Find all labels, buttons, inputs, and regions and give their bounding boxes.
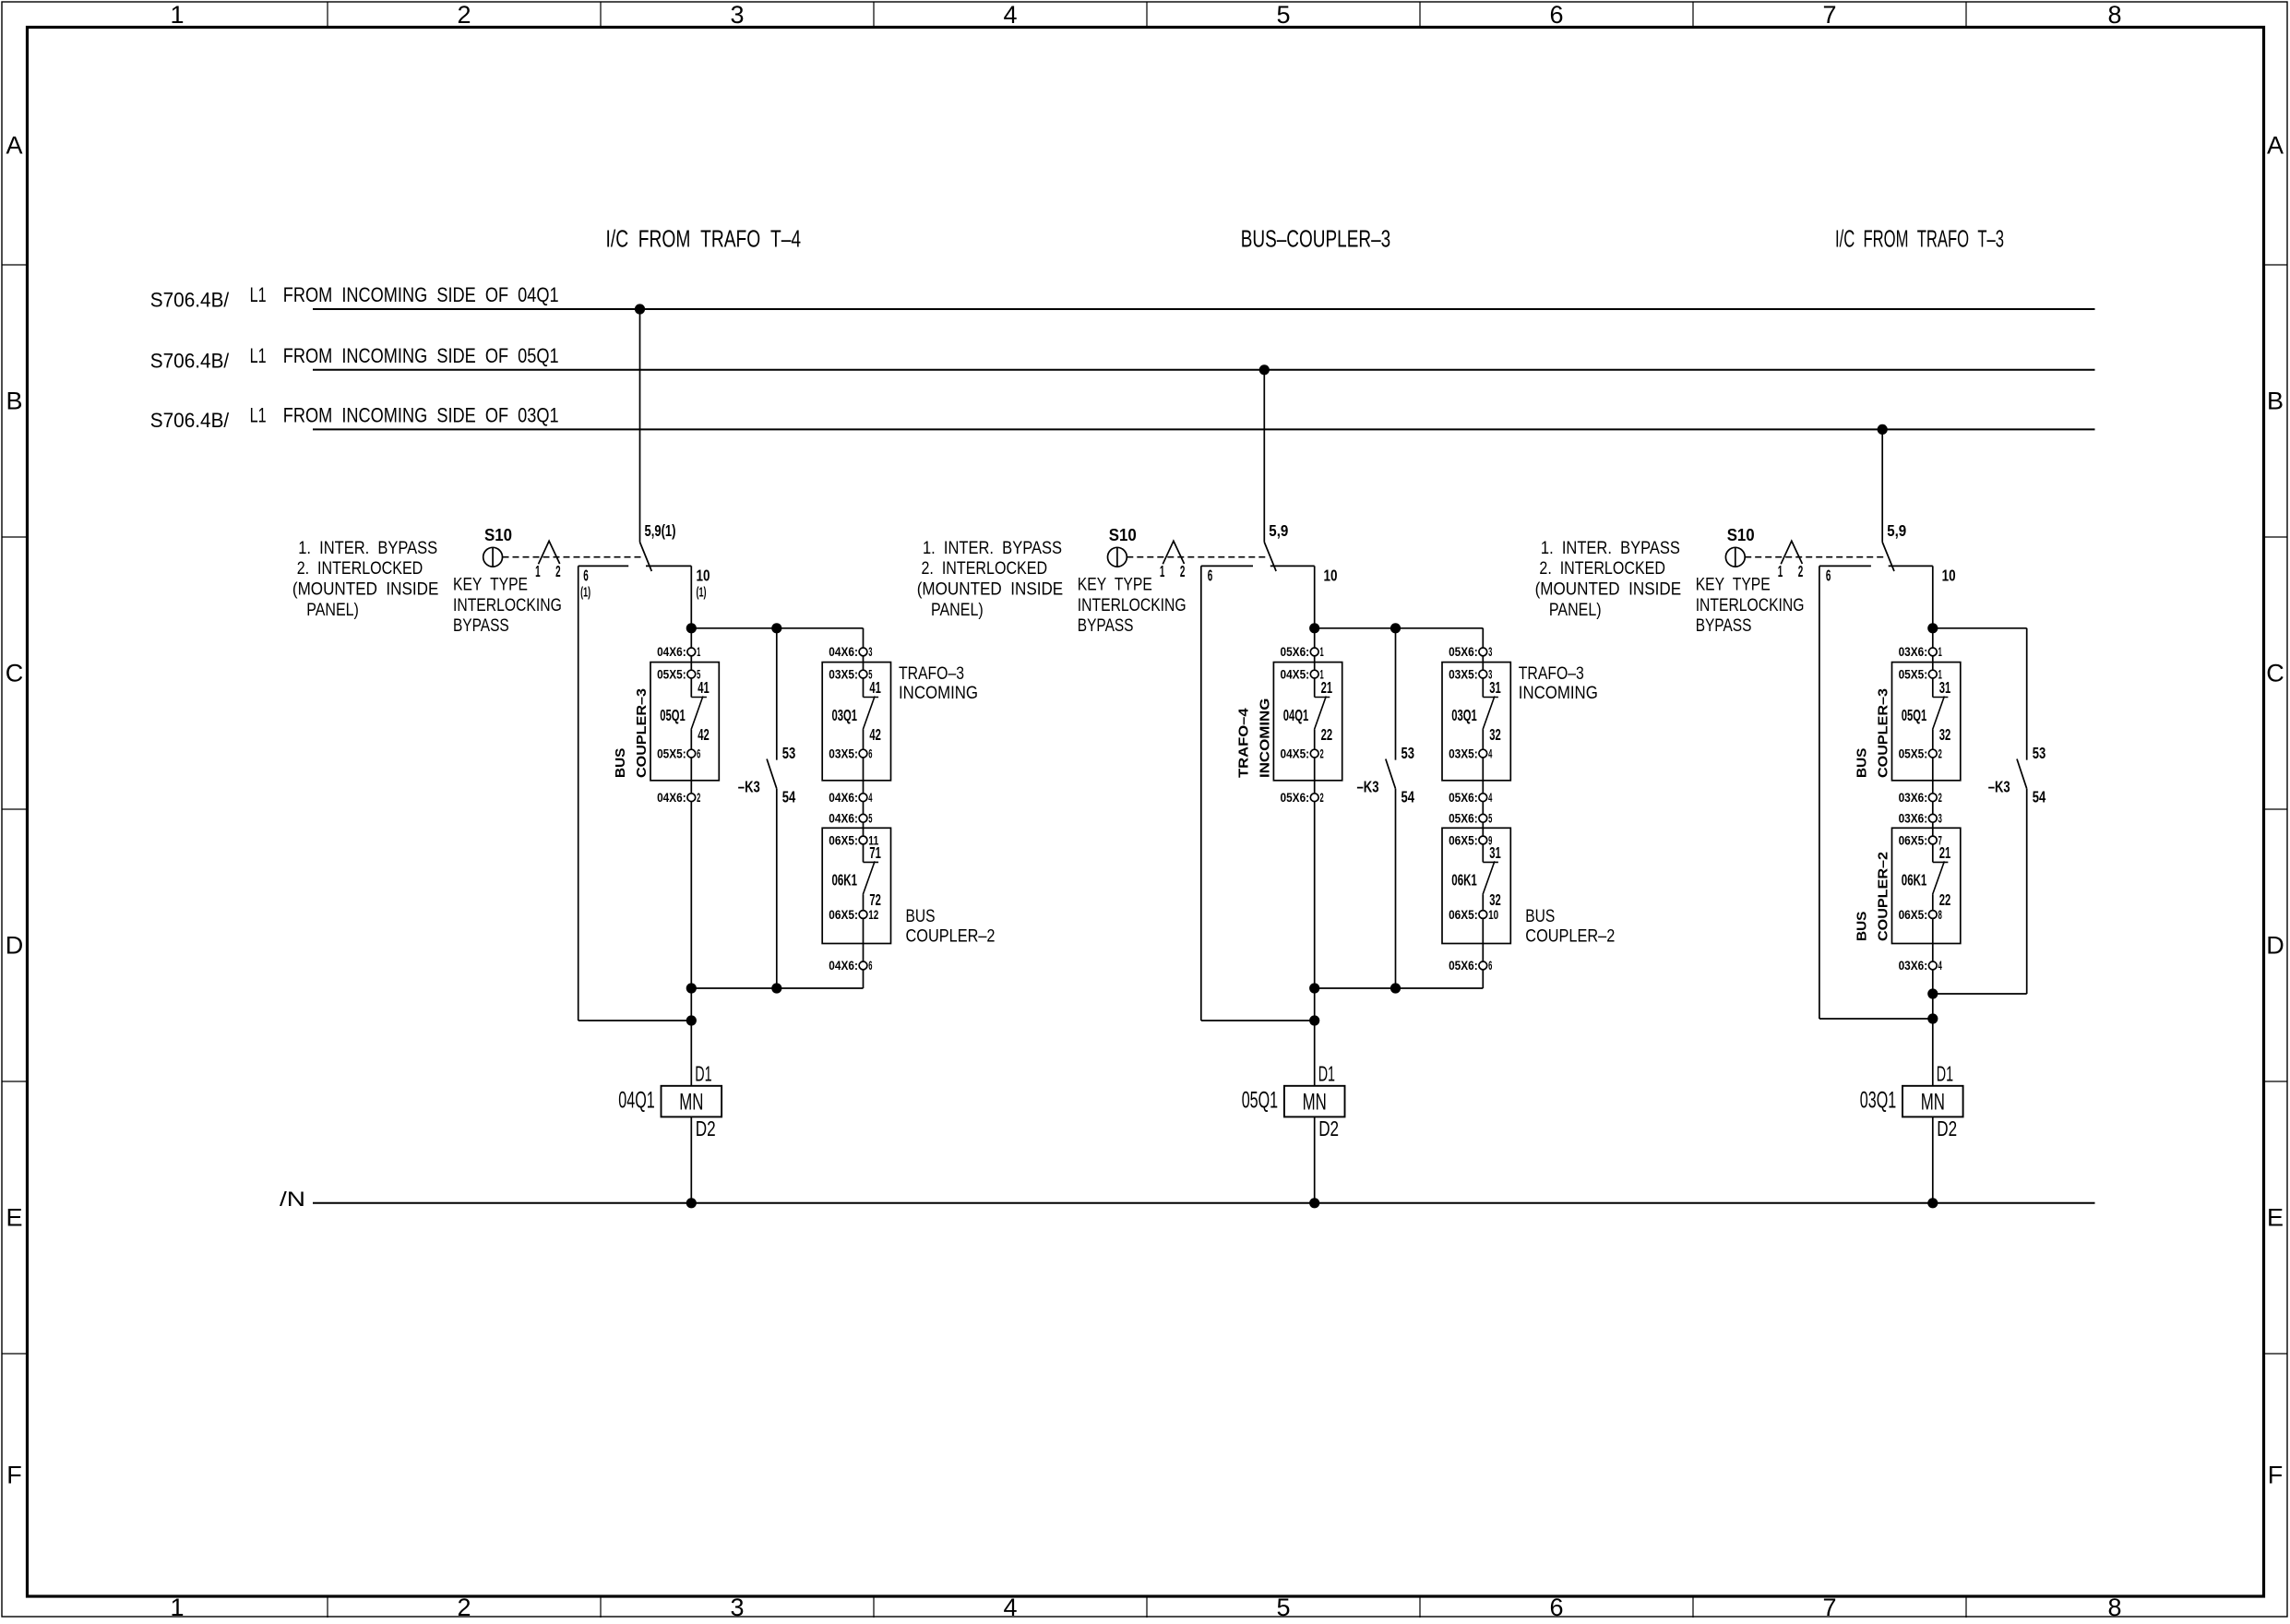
svg-text:4: 4 [1938, 959, 1942, 973]
contact blade 06K1 21-22 [1933, 861, 1945, 894]
svg-text:BYPASS: BYPASS [1078, 616, 1134, 636]
wire branch top rail left section 3 [1819, 565, 1871, 567]
terminal 05X6:5 [1479, 814, 1487, 822]
svg-text:6: 6 [583, 567, 589, 585]
contact terminal tick 41 [864, 697, 879, 699]
svg-text:06K1: 06K1 [1451, 871, 1477, 890]
svg-text:1. INTER. BYPASS: 1. INTER. BYPASS [1541, 539, 1680, 558]
svg-text:S10: S10 [1109, 525, 1137, 544]
wire bottom junction rail section 3 [1933, 993, 2027, 995]
terminal 06X5:11 [859, 836, 867, 844]
svg-text:INCOMING: INCOMING [899, 684, 978, 703]
svg-text:L1: L1 [250, 344, 267, 367]
wire incoming drop section 2 [1263, 370, 1265, 543]
contact box 04Q1 section 2 [1273, 663, 1342, 781]
svg-text:10: 10 [1942, 567, 1956, 585]
terminal 05X6:3 [1479, 648, 1487, 656]
svg-text:6: 6 [1549, 1594, 1563, 1619]
svg-text:1: 1 [535, 562, 541, 580]
svg-text:05X5:: 05X5: [657, 667, 686, 681]
svg-text:2: 2 [1320, 791, 1324, 805]
svg-text:9: 9 [1488, 833, 1492, 847]
svg-text:6: 6 [1208, 567, 1213, 585]
svg-text:4: 4 [1488, 746, 1492, 760]
svg-text:10: 10 [1324, 567, 1338, 585]
wire bottom junction rail section 2 [1315, 987, 1484, 989]
svg-text:06K1: 06K1 [832, 871, 858, 890]
svg-text:05X6:: 05X6: [1449, 959, 1478, 973]
coil MN 04Q1 section 1 [662, 1086, 722, 1117]
terminal 03X5:5 [859, 670, 867, 678]
wire right chain segments section 2 [1482, 628, 1484, 698]
svg-text:1: 1 [170, 1594, 184, 1619]
node left branch rejoin section 2 [1309, 1015, 1319, 1025]
svg-text:04X5:: 04X5: [1281, 746, 1310, 760]
contact terminal tick 41 [691, 697, 707, 699]
svg-text:2. INTERLOCKED: 2. INTERLOCKED [297, 559, 423, 579]
svg-text:MN: MN [679, 1089, 703, 1115]
terminal 05X5:5 [687, 670, 696, 678]
wire bottom junction rail section 1 [691, 987, 863, 989]
wire incoming drop section 3 [1881, 429, 1883, 542]
wire neutral N [313, 1202, 2095, 1204]
terminal 06X5:9 [1479, 836, 1487, 844]
svg-text:D2: D2 [1937, 1116, 1957, 1140]
svg-text:2: 2 [697, 791, 700, 805]
wire incoming drop section 1 [639, 309, 641, 543]
svg-text:5: 5 [1488, 812, 1492, 826]
svg-text:06K1: 06K1 [1902, 871, 1927, 890]
svg-text:PANEL): PANEL) [931, 601, 984, 620]
svg-text:MN: MN [1921, 1089, 1945, 1115]
svg-text:6: 6 [868, 746, 872, 760]
svg-text:4: 4 [868, 791, 872, 805]
contact terminal tick 31 [1933, 697, 1949, 699]
svg-text:03X6:: 03X6: [1899, 812, 1928, 826]
svg-text:06X5:: 06X5: [1899, 833, 1928, 847]
wire main chain upper section 2 [1314, 566, 1316, 697]
svg-text:42: 42 [869, 725, 881, 744]
svg-text:6: 6 [1826, 567, 1831, 585]
svg-text:D1: D1 [695, 1062, 711, 1086]
terminal 05X6:2 [1310, 794, 1318, 802]
svg-text:A: A [6, 132, 22, 160]
svg-text:06X5:: 06X5: [829, 908, 858, 922]
svg-text:A: A [2267, 132, 2284, 160]
svg-text:B: B [6, 388, 22, 415]
svg-text:1. INTER. BYPASS: 1. INTER. BYPASS [298, 539, 437, 558]
svg-text:BYPASS: BYPASS [1696, 616, 1752, 636]
contact blade 04Q1 21-22 [1315, 697, 1327, 730]
contact blade 06K1 31-32 [1483, 861, 1495, 894]
svg-text:1: 1 [170, 1, 184, 29]
terminal 04X5:2 [1310, 749, 1318, 758]
svg-text:/N: /N [280, 1188, 305, 1211]
svg-text:(MOUNTED INSIDE: (MOUNTED INSIDE [292, 580, 439, 600]
svg-text:53: 53 [782, 744, 796, 762]
svg-text:KEY TYPE: KEY TYPE [1078, 575, 1152, 594]
svg-text:04X6:: 04X6: [829, 645, 858, 659]
svg-text:FROM INCOMING SIDE OF 05Q1: FROM INCOMING SIDE OF 05Q1 [283, 344, 559, 367]
svg-text:(MOUNTED INSIDE: (MOUNTED INSIDE [1535, 580, 1682, 600]
contact blade 03Q1 41-42 [863, 697, 875, 730]
wire dashed interlock link section 1 [503, 556, 645, 558]
key symbol section 1 [539, 541, 560, 564]
svg-text:(1): (1) [580, 585, 590, 601]
svg-text:KEY TYPE: KEY TYPE [453, 575, 528, 594]
wire bus L1 from incoming side of 03Q1 [313, 428, 2095, 430]
svg-text:04X6:: 04X6: [829, 959, 858, 973]
contact box 03Q1 section 2 [1442, 663, 1510, 781]
switch blade 5,9 section 1 [640, 543, 652, 572]
svg-text:05X5:: 05X5: [1899, 667, 1928, 681]
wire branch top rail right section 2 [1270, 565, 1315, 567]
svg-text:1: 1 [1320, 667, 1324, 681]
svg-text:2: 2 [1938, 791, 1942, 805]
svg-text:B: B [2267, 388, 2284, 415]
svg-text:COUPLER–2: COUPLER–2 [1525, 927, 1615, 947]
svg-text:4: 4 [1488, 791, 1492, 805]
svg-text:L1: L1 [250, 283, 267, 306]
svg-text:1: 1 [1938, 645, 1942, 659]
svg-text:L1: L1 [250, 403, 267, 426]
node top junction section 2 [1309, 623, 1319, 633]
terminal 03X6:1 [1928, 648, 1937, 656]
coil MN 03Q1 section 3 [1902, 1086, 1963, 1117]
terminal 05X6:4 [1479, 794, 1487, 802]
terminal 03X5:3 [1479, 670, 1487, 678]
svg-text:05X6:: 05X6: [1281, 791, 1310, 805]
wire top junction rail section 3 [1933, 627, 2027, 629]
svg-text:32: 32 [1939, 725, 1951, 744]
svg-text:05X6:: 05X6: [1281, 645, 1310, 659]
svg-text:3: 3 [1488, 667, 1492, 681]
svg-text:6: 6 [697, 746, 700, 760]
svg-text:8: 8 [2107, 1, 2121, 29]
terminal 05X6:6 [1479, 961, 1487, 970]
wire right chain segments section 1 [863, 628, 865, 698]
svg-text:03X5:: 03X5: [1449, 667, 1478, 681]
terminal 06X5:12 [859, 911, 867, 919]
svg-text:12: 12 [868, 908, 878, 922]
node bottom junction main section 1 [686, 983, 697, 993]
node bottom junction main section 3 [1927, 988, 1938, 998]
contact blade 05Q1 31-32 [1933, 697, 1945, 730]
svg-text:PANEL): PANEL) [1549, 601, 1602, 620]
svg-text:S706.4B/: S706.4B/ [150, 409, 230, 432]
contact terminal tick 71 [864, 861, 879, 863]
svg-text:3: 3 [730, 1594, 744, 1619]
contact blade 06K1 71-72 [863, 861, 875, 894]
svg-text:05X6:: 05X6: [1449, 791, 1478, 805]
contact -K3 53-54 section 3 [2026, 628, 2028, 760]
wire branch top rail left section 1 [578, 565, 629, 567]
contact box 03Q1 section 1 [822, 663, 890, 781]
svg-text:–K3: –K3 [1988, 778, 2010, 796]
svg-text:54: 54 [782, 788, 796, 806]
wire left branch section 2 [1200, 566, 1202, 1021]
terminal 03X6:4 [1928, 961, 1937, 970]
svg-text:I/C FROM TRAFO T–4: I/C FROM TRAFO T–4 [606, 225, 802, 253]
svg-text:TRAFO–4: TRAFO–4 [1236, 708, 1252, 778]
svg-text:3: 3 [1488, 645, 1492, 659]
svg-text:1. INTER. BYPASS: 1. INTER. BYPASS [923, 539, 1062, 558]
svg-text:INCOMING: INCOMING [1258, 699, 1273, 778]
switch blade 5,9 section 2 [1264, 543, 1276, 572]
svg-text:04X6:: 04X6: [657, 645, 686, 659]
terminal 04X6:2 [687, 794, 696, 802]
wire main chain lower section 2 [1314, 730, 1316, 1086]
wire dashed interlock link section 2 [1127, 556, 1269, 558]
svg-text:32: 32 [1489, 890, 1501, 909]
svg-text:04X6:: 04X6: [657, 791, 686, 805]
terminal 04X6:5 [859, 814, 867, 822]
wire main chain lower section 1 [690, 730, 692, 1086]
coil MN 05Q1 section 2 [1284, 1086, 1345, 1117]
svg-text:F: F [2268, 1462, 2284, 1489]
svg-text:COUPLER–2: COUPLER–2 [1876, 852, 1891, 941]
svg-text:2: 2 [1938, 746, 1942, 760]
wire top junction rail section 1 [691, 627, 863, 629]
node top junction section 1 [686, 623, 697, 633]
terminal 04X6:3 [859, 648, 867, 656]
svg-text:8: 8 [1938, 908, 1942, 922]
border column tick lines top [327, 2, 328, 27]
wire branch top rail right section 1 [646, 565, 691, 567]
key switch S10 circle section 3 [1725, 547, 1745, 567]
contact box 06K1 section 1 [822, 828, 890, 943]
key symbol section 2 [1163, 541, 1184, 564]
svg-text:22: 22 [1939, 890, 1951, 909]
svg-text:INTERLOCKING: INTERLOCKING [1078, 596, 1187, 615]
wire dashed interlock link section 3 [1745, 556, 1887, 558]
key switch S10 circle section 1 [483, 547, 503, 567]
svg-text:03X5:: 03X5: [829, 746, 858, 760]
terminal 06X5:8 [1928, 911, 1937, 919]
contact -K3 53-54 section 2 [1395, 628, 1397, 760]
svg-text:04X5:: 04X5: [1281, 667, 1310, 681]
svg-text:03X6:: 03X6: [1899, 645, 1928, 659]
contact -K3 53-54 section 1 [776, 628, 778, 760]
svg-text:03X6:: 03X6: [1899, 959, 1928, 973]
node bus tap junction section 3 [1878, 424, 1888, 435]
svg-text:BUS–COUPLER–3: BUS–COUPLER–3 [1241, 225, 1391, 253]
svg-text:06X5:: 06X5: [1899, 908, 1928, 922]
svg-text:05Q1: 05Q1 [1902, 706, 1927, 724]
svg-text:2: 2 [457, 1, 471, 29]
svg-text:2: 2 [555, 562, 561, 580]
node top junction at -K3 section 1 [771, 623, 781, 633]
svg-text:03Q1: 03Q1 [832, 706, 858, 724]
wire bus L1 from incoming side of 04Q1 [313, 308, 2095, 310]
contact box 05Q1 section 3 [1892, 663, 1961, 781]
wire main chain lower section 3 [1932, 730, 1934, 863]
border row tick lines left [2, 264, 27, 266]
svg-text:COUPLER–3: COUPLER–3 [634, 688, 650, 778]
terminal 04X6:4 [859, 794, 867, 802]
terminal 06X5:10 [1479, 911, 1487, 919]
svg-text:2. INTERLOCKED: 2. INTERLOCKED [1539, 559, 1665, 579]
svg-text:4: 4 [1003, 1594, 1017, 1619]
svg-text:06X5:: 06X5: [1449, 908, 1478, 922]
wire left branch section 1 [578, 566, 579, 1021]
svg-text:C: C [6, 660, 24, 687]
svg-text:D2: D2 [696, 1116, 716, 1140]
wire branch top rail right section 3 [1889, 565, 1933, 567]
svg-text:7: 7 [1938, 833, 1942, 847]
svg-text:05Q1: 05Q1 [660, 706, 686, 724]
svg-text:3: 3 [730, 1, 744, 29]
svg-text:42: 42 [698, 725, 710, 744]
svg-text:5: 5 [868, 812, 872, 826]
svg-text:FROM INCOMING SIDE OF 04Q1: FROM INCOMING SIDE OF 04Q1 [283, 283, 559, 306]
wire coil to neutral section 2 [1314, 1116, 1316, 1202]
wire coil to neutral section 1 [690, 1116, 692, 1202]
node neutral junction section 2 [1309, 1198, 1319, 1208]
svg-text:1: 1 [1938, 667, 1942, 681]
terminal 05X6:1 [1310, 648, 1318, 656]
terminal 05X5:2 [1928, 749, 1937, 758]
node bottom junction main section 2 [1309, 983, 1319, 993]
svg-text:03X6:: 03X6: [1899, 791, 1928, 805]
svg-text:D: D [2266, 932, 2284, 960]
node neutral junction section 3 [1927, 1198, 1938, 1208]
svg-text:03Q1: 03Q1 [1451, 706, 1477, 724]
svg-text:05X6:: 05X6: [1449, 812, 1478, 826]
svg-text:D2: D2 [1318, 1116, 1339, 1140]
node bottom junction -K3 section 1 [771, 983, 781, 993]
key switch S10 circle section 2 [1108, 547, 1127, 567]
switch blade 5,9 section 3 [1882, 543, 1894, 572]
svg-text:54: 54 [2033, 788, 2046, 806]
terminal 06X5:7 [1928, 836, 1937, 844]
svg-text:54: 54 [1401, 788, 1415, 806]
wire top junction rail section 2 [1315, 627, 1484, 629]
svg-text:INTERLOCKING: INTERLOCKING [1696, 596, 1805, 615]
contact terminal tick 21 [1933, 861, 1949, 863]
svg-text:1: 1 [1320, 645, 1324, 659]
svg-text:6: 6 [868, 959, 872, 973]
svg-text:INTERLOCKING: INTERLOCKING [453, 596, 562, 615]
svg-text:S10: S10 [1727, 525, 1755, 544]
svg-text:03Q1: 03Q1 [1860, 1088, 1896, 1114]
svg-text:22: 22 [1321, 725, 1333, 744]
svg-text:(MOUNTED INSIDE: (MOUNTED INSIDE [917, 580, 1063, 600]
svg-text:D1: D1 [1318, 1062, 1335, 1086]
wire left branch section 3 [1819, 566, 1820, 1019]
svg-text:04Q1: 04Q1 [1283, 706, 1309, 724]
svg-text:2: 2 [1798, 562, 1804, 580]
svg-text:3: 3 [868, 645, 872, 659]
wire main chain upper section 3 [1932, 566, 1934, 697]
svg-text:5,9: 5,9 [1887, 521, 1906, 540]
svg-text:03X5:: 03X5: [1449, 746, 1478, 760]
svg-text:BUS: BUS [1855, 912, 1870, 941]
svg-text:5: 5 [697, 667, 700, 681]
svg-text:7: 7 [1822, 1594, 1836, 1619]
svg-text:05X6:: 05X6: [1449, 645, 1478, 659]
svg-text:(1): (1) [697, 585, 707, 601]
svg-text:5: 5 [1276, 1594, 1290, 1619]
svg-text:05X5:: 05X5: [1899, 746, 1928, 760]
svg-text:1: 1 [1160, 562, 1165, 580]
svg-text:BUS: BUS [1855, 748, 1870, 778]
contact blade 03Q1 31-32 [1483, 697, 1495, 730]
node bus tap junction section 1 [635, 304, 645, 314]
svg-text:53: 53 [2033, 744, 2046, 762]
svg-text:8: 8 [2107, 1594, 2121, 1619]
svg-text:FROM INCOMING SIDE OF 03Q1: FROM INCOMING SIDE OF 03Q1 [283, 403, 559, 426]
svg-text:4: 4 [1003, 1, 1017, 29]
terminal 05X5:1 [1928, 670, 1937, 678]
svg-text:D1: D1 [1937, 1062, 1953, 1086]
svg-text:2: 2 [457, 1594, 471, 1619]
wire branch top rail left section 2 [1201, 565, 1253, 567]
svg-text:6: 6 [1488, 959, 1492, 973]
svg-text:BUS: BUS [1525, 907, 1555, 926]
node top junction at -K3 section 2 [1390, 623, 1401, 633]
node bus tap junction section 2 [1259, 364, 1270, 375]
svg-text:COUPLER–3: COUPLER–3 [1876, 688, 1891, 778]
node bottom junction -K3 section 2 [1390, 983, 1401, 993]
svg-text:E: E [2267, 1204, 2284, 1232]
svg-text:MN: MN [1303, 1089, 1327, 1115]
contact terminal tick 21 [1315, 697, 1330, 699]
svg-text:BUS: BUS [906, 907, 936, 926]
svg-text:BUS: BUS [613, 748, 628, 778]
terminal 04X6:6 [859, 961, 867, 970]
contact box 06K1 section 3 [1892, 828, 1961, 943]
svg-text:F: F [6, 1462, 22, 1489]
svg-text:PANEL): PANEL) [306, 601, 359, 620]
svg-text:TRAFO–3: TRAFO–3 [899, 664, 964, 684]
svg-text:04X6:: 04X6: [829, 812, 858, 826]
svg-text:32: 32 [1489, 725, 1501, 744]
wire bus L1 from incoming side of 05Q1 [313, 369, 2095, 371]
terminal 05X5:6 [687, 749, 696, 758]
svg-text:7: 7 [1822, 1, 1836, 29]
terminal 03X5:4 [1479, 749, 1487, 758]
svg-text:5,9: 5,9 [1269, 521, 1288, 540]
svg-text:04X6:: 04X6: [829, 791, 858, 805]
svg-text:TRAFO–3: TRAFO–3 [1519, 664, 1584, 684]
wire coil to neutral section 3 [1932, 1116, 1934, 1202]
svg-text:53: 53 [1401, 744, 1415, 762]
svg-text:72: 72 [869, 890, 881, 909]
terminal 03X6:2 [1928, 794, 1937, 802]
svg-text:COUPLER–2: COUPLER–2 [906, 927, 996, 947]
svg-text:–K3: –K3 [1357, 778, 1379, 796]
contact terminal tick 31 [1483, 861, 1498, 863]
terminal 03X6:3 [1928, 814, 1937, 822]
contact box 05Q1 section 1 [650, 663, 719, 781]
svg-text:10: 10 [1488, 908, 1498, 922]
svg-text:2. INTERLOCKED: 2. INTERLOCKED [922, 559, 1048, 579]
svg-text:E: E [6, 1204, 22, 1232]
wire main chain upper section 1 [690, 566, 692, 697]
svg-text:1: 1 [1778, 562, 1783, 580]
svg-text:5: 5 [1276, 1, 1290, 29]
terminal 04X5:1 [1310, 670, 1318, 678]
border column tick lines bottom [327, 1596, 328, 1618]
svg-text:3: 3 [1938, 812, 1942, 826]
contact blade 05Q1 41-42 [691, 697, 703, 730]
svg-text:S706.4B/: S706.4B/ [150, 349, 230, 372]
svg-text:–K3: –K3 [738, 778, 760, 796]
svg-text:S10: S10 [484, 525, 512, 544]
svg-text:03X5:: 03X5: [829, 667, 858, 681]
contact box 06K1 section 2 [1442, 828, 1510, 943]
